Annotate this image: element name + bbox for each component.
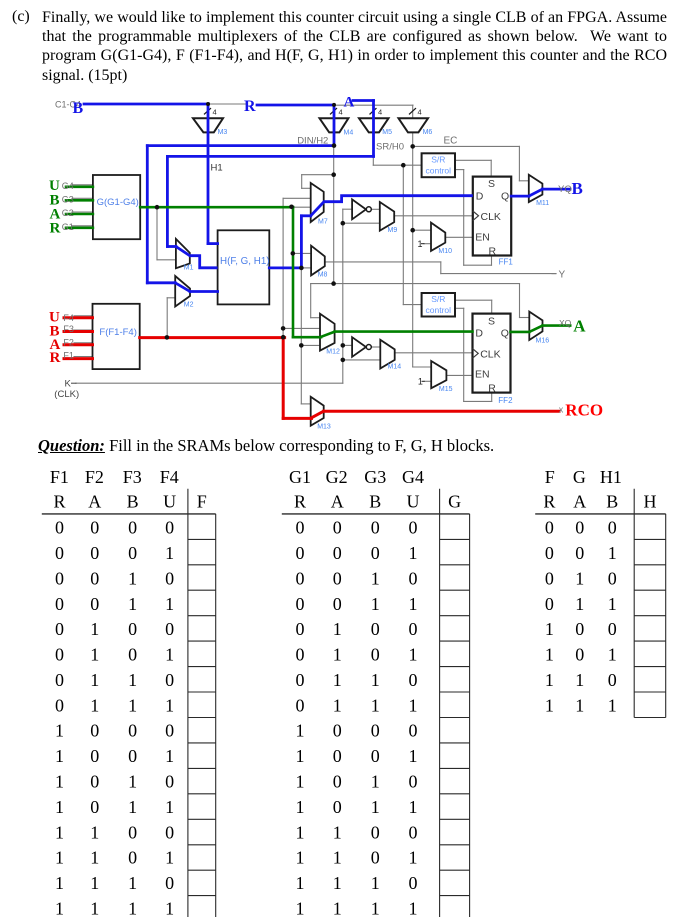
svg-text:M14: M14 xyxy=(388,364,402,371)
svg-text:1: 1 xyxy=(296,772,305,792)
svg-text:R: R xyxy=(488,382,496,394)
svg-text:0: 0 xyxy=(409,873,418,893)
svg-text:0: 0 xyxy=(55,543,64,563)
svg-text:1: 1 xyxy=(608,645,617,665)
svg-text:YQ: YQ xyxy=(558,184,572,195)
svg-text:M12: M12 xyxy=(326,349,340,356)
svg-text:0: 0 xyxy=(90,721,99,741)
wire M11 output YQ blue xyxy=(542,188,570,191)
svg-text:0: 0 xyxy=(371,822,380,842)
svg-text:H(F, G, H1): H(F, G, H1) xyxy=(220,256,270,267)
S/R control box 2 xyxy=(422,293,455,317)
wire SR/H0 gray drop to S/R control boxes xyxy=(372,156,374,165)
svg-text:0: 0 xyxy=(128,848,137,868)
svg-text:0: 0 xyxy=(128,721,137,741)
svg-text:EN: EN xyxy=(475,369,490,381)
wire S/R control 1 to FF1 R pin xyxy=(455,169,464,171)
svg-text:0: 0 xyxy=(296,543,305,563)
svg-text:A: A xyxy=(344,95,355,111)
svg-text:4: 4 xyxy=(418,108,422,117)
svg-text:F2: F2 xyxy=(63,337,74,347)
svg-text:1: 1 xyxy=(128,898,137,917)
svg-text:1: 1 xyxy=(296,898,305,917)
wire EC branch to M10 upper input xyxy=(413,229,431,231)
svg-text:1: 1 xyxy=(371,772,380,792)
svg-text:F3: F3 xyxy=(123,467,142,487)
svg-text:EC: EC xyxy=(444,136,458,147)
svg-text:control: control xyxy=(426,305,452,315)
svg-text:M11: M11 xyxy=(536,200,549,207)
wire M7 output to FF1 D blue xyxy=(324,196,473,202)
wire M1 output to H block blue xyxy=(190,256,218,268)
svg-text:CLK: CLK xyxy=(480,348,500,360)
svg-text:1: 1 xyxy=(371,898,380,917)
wire DIN loop to M7 upper input xyxy=(302,174,334,176)
svg-text:D: D xyxy=(476,190,484,202)
svg-text:R: R xyxy=(50,350,61,366)
node G to M8 junction xyxy=(291,251,296,256)
svg-text:1: 1 xyxy=(575,569,584,589)
node F output corner junction xyxy=(281,335,286,340)
svg-text:K: K xyxy=(65,379,72,390)
wire EC branch to M11 xyxy=(413,145,520,147)
svg-text:Q: Q xyxy=(501,327,509,339)
svg-text:1: 1 xyxy=(409,898,418,917)
svg-text:1: 1 xyxy=(55,848,64,868)
svg-text:0: 0 xyxy=(409,772,418,792)
svg-text:B: B xyxy=(369,492,381,512)
svg-text:0: 0 xyxy=(608,619,617,639)
svg-text:1: 1 xyxy=(409,797,418,817)
svg-text:1: 1 xyxy=(545,645,554,665)
svg-text:G1: G1 xyxy=(289,467,311,487)
inverter 2 (clock) xyxy=(352,337,366,357)
node DIN/H2 junction xyxy=(332,143,337,148)
mux M9 xyxy=(380,202,394,231)
svg-text:0: 0 xyxy=(296,619,305,639)
svg-text:M2: M2 xyxy=(184,302,194,309)
svg-text:0: 0 xyxy=(55,518,64,538)
flip-flop FF2 xyxy=(473,314,511,393)
wire DIN vertical below M4 junction xyxy=(333,146,335,284)
svg-text:0: 0 xyxy=(90,543,99,563)
svg-text:1: 1 xyxy=(296,746,305,766)
svg-text:1: 1 xyxy=(296,797,305,817)
svg-text:1: 1 xyxy=(165,695,174,715)
wire clock to M9 lower input xyxy=(343,222,380,224)
svg-text:F3: F3 xyxy=(63,324,74,334)
svg-text:G4: G4 xyxy=(402,467,424,487)
mux M11 selected path blue xyxy=(529,189,543,196)
svg-text:1: 1 xyxy=(333,695,342,715)
svg-text:1: 1 xyxy=(296,721,305,741)
svg-text:1: 1 xyxy=(128,670,137,690)
svg-text:R: R xyxy=(50,221,61,237)
svg-text:1: 1 xyxy=(371,873,380,893)
svg-text:0: 0 xyxy=(55,645,64,665)
svg-text:1: 1 xyxy=(90,898,99,917)
svg-text:0: 0 xyxy=(90,518,99,538)
node H to M12 junction xyxy=(299,343,304,348)
svg-text:1: 1 xyxy=(55,746,64,766)
svg-text:1: 1 xyxy=(409,746,418,766)
svg-text:EN: EN xyxy=(475,232,490,244)
node M4 tap junction xyxy=(332,103,336,107)
mux M7 selected path blue xyxy=(311,202,324,216)
wire FF2 Q to M16 green xyxy=(511,331,530,334)
wire clock to inverter 2 xyxy=(343,344,352,346)
svg-text:B: B xyxy=(572,179,583,198)
svg-text:M4: M4 xyxy=(344,130,354,137)
svg-text:0: 0 xyxy=(90,569,99,589)
svg-text:1: 1 xyxy=(409,645,418,665)
svg-text:0: 0 xyxy=(90,797,99,817)
mux M3 xyxy=(193,118,223,132)
svg-text:0: 0 xyxy=(575,543,584,563)
svg-text:H1: H1 xyxy=(211,163,223,174)
svg-text:0: 0 xyxy=(409,721,418,741)
svg-text:1: 1 xyxy=(608,695,617,715)
svg-text:G3: G3 xyxy=(364,467,386,487)
svg-text:M8: M8 xyxy=(318,272,328,279)
wire F-output riser to M7 and M12 xyxy=(282,198,284,337)
node DIN lower junction xyxy=(331,281,336,286)
mux M6 xyxy=(399,118,429,132)
svg-text:control: control xyxy=(426,166,452,176)
svg-text:0: 0 xyxy=(409,670,418,690)
svg-text:F: F xyxy=(197,492,207,512)
svg-text:1: 1 xyxy=(165,848,174,868)
wire M15 output to FF2 EN xyxy=(446,374,472,376)
svg-text:0: 0 xyxy=(165,822,174,842)
svg-text:1: 1 xyxy=(165,594,174,614)
wire H output blue xyxy=(269,266,301,269)
svg-text:0: 0 xyxy=(296,518,305,538)
wire G drop to M12 green xyxy=(292,207,295,337)
svg-text:1: 1 xyxy=(371,695,380,715)
svg-text:0: 0 xyxy=(545,569,554,589)
svg-text:1: 1 xyxy=(296,848,305,868)
node EC junction xyxy=(410,144,415,149)
svg-text:A: A xyxy=(331,492,344,512)
svg-text:1: 1 xyxy=(333,645,342,665)
svg-text:0: 0 xyxy=(409,822,418,842)
svg-text:1: 1 xyxy=(55,721,64,741)
wire G block input G4-G1 green xyxy=(66,186,93,189)
svg-text:0: 0 xyxy=(371,721,380,741)
svg-text:1: 1 xyxy=(55,822,64,842)
svg-text:1: 1 xyxy=(575,594,584,614)
svg-text:DIN/H2: DIN/H2 xyxy=(297,136,328,147)
wire M12 output to FF2 D green xyxy=(335,330,473,333)
svg-text:F1: F1 xyxy=(50,467,69,487)
wire M13 output RCO red xyxy=(324,410,559,413)
mux M16 xyxy=(529,312,542,340)
svg-text:x: x xyxy=(559,405,564,415)
svg-text:(CLK): (CLK) xyxy=(54,389,79,400)
wire DIN/H2 drop to M2 blue xyxy=(146,146,149,283)
svg-text:0: 0 xyxy=(333,594,342,614)
svg-text:0: 0 xyxy=(55,594,64,614)
wire clock riser xyxy=(342,209,344,383)
svg-text:FF1: FF1 xyxy=(499,258,514,267)
node F to M12 junction xyxy=(281,326,286,331)
svg-text:0: 0 xyxy=(55,569,64,589)
svg-text:0: 0 xyxy=(165,619,174,639)
wire F block input stubs gray xyxy=(74,315,93,317)
svg-text:R: R xyxy=(489,245,497,257)
svg-text:B: B xyxy=(73,100,84,117)
node DIN upper loop junction xyxy=(331,172,336,177)
svg-text:1: 1 xyxy=(165,746,174,766)
wire gray segment M4-to-M6 top feed xyxy=(334,104,413,106)
svg-text:4: 4 xyxy=(213,108,217,117)
mux M12 selected path green xyxy=(320,332,335,338)
svg-text:0: 0 xyxy=(409,619,418,639)
wire M3 H1 vertical blue xyxy=(207,104,210,244)
svg-text:1: 1 xyxy=(128,797,137,817)
svg-text:M9: M9 xyxy=(388,227,398,234)
svg-text:Y: Y xyxy=(559,270,566,281)
svg-text:1: 1 xyxy=(90,670,99,690)
wire M6 input/output vertical and EC down-feed xyxy=(412,105,414,367)
svg-text:B: B xyxy=(127,492,139,512)
svg-text:G2: G2 xyxy=(326,467,348,487)
wire H branch to M8 lower input xyxy=(301,267,311,269)
wire S/R control 1 to FF1 S pin xyxy=(455,159,491,161)
wire G block output green xyxy=(140,206,293,209)
svg-text:XQ: XQ xyxy=(559,318,572,328)
svg-text:F4: F4 xyxy=(160,467,179,487)
svg-text:0: 0 xyxy=(333,569,342,589)
svg-text:1: 1 xyxy=(128,695,137,715)
svg-text:1: 1 xyxy=(55,797,64,817)
svg-text:1: 1 xyxy=(128,772,137,792)
svg-text:1: 1 xyxy=(90,645,99,665)
inverter 1 (clock) xyxy=(352,199,366,219)
svg-text:S: S xyxy=(488,178,495,190)
wire F block output red xyxy=(140,336,285,339)
svg-text:S: S xyxy=(488,315,495,327)
node H output junction xyxy=(299,266,304,271)
svg-text:0: 0 xyxy=(333,797,342,817)
svg-text:0: 0 xyxy=(575,645,584,665)
svg-text:G3: G3 xyxy=(62,195,74,205)
wire inverter1 output to M9 upper input xyxy=(371,208,380,210)
mux M7 xyxy=(311,183,324,222)
svg-text:M7: M7 xyxy=(318,219,328,226)
wire K clock line xyxy=(76,382,343,384)
wire EC branch to M15 upper input xyxy=(413,366,432,368)
svg-text:1: 1 xyxy=(545,670,554,690)
svg-text:M15: M15 xyxy=(439,386,453,393)
wire C1-C4 bus gray segment M3-to-R xyxy=(207,103,247,105)
svg-text:1: 1 xyxy=(575,670,584,690)
svg-text:1: 1 xyxy=(165,898,174,917)
mux M5 xyxy=(359,118,389,132)
svg-text:0: 0 xyxy=(333,721,342,741)
svg-text:0: 0 xyxy=(545,543,554,563)
block H(F,G,H1) xyxy=(218,230,270,304)
svg-text:0: 0 xyxy=(371,645,380,665)
mux M13 xyxy=(311,397,324,426)
svg-text:B: B xyxy=(606,492,618,512)
node clock to M14 junction xyxy=(341,358,346,363)
svg-text:0: 0 xyxy=(128,518,137,538)
svg-text:0: 0 xyxy=(371,518,380,538)
svg-text:0: 0 xyxy=(165,569,174,589)
svg-text:0: 0 xyxy=(296,594,305,614)
svg-text:M5: M5 xyxy=(382,129,392,136)
svg-text:0: 0 xyxy=(333,746,342,766)
svg-text:1: 1 xyxy=(409,695,418,715)
svg-text:0: 0 xyxy=(165,670,174,690)
svg-text:S/R: S/R xyxy=(431,155,445,165)
wire A to M5 blue xyxy=(353,99,374,102)
svg-text:G2: G2 xyxy=(62,208,74,218)
svg-text:M16: M16 xyxy=(536,338,550,345)
node G output junction xyxy=(155,205,160,210)
svg-text:1: 1 xyxy=(545,695,554,715)
svg-text:0: 0 xyxy=(55,695,64,715)
node G riser junction xyxy=(289,205,294,210)
wire S/R control 2 to FF2 S pin xyxy=(455,299,492,301)
svg-text:0: 0 xyxy=(371,848,380,868)
svg-text:0: 0 xyxy=(165,518,174,538)
mux M2 xyxy=(175,276,190,307)
bus slash marks 4-bit xyxy=(205,109,211,115)
svg-text:D: D xyxy=(475,327,483,339)
svg-text:1: 1 xyxy=(333,898,342,917)
wire M9 output to FF1 CLK xyxy=(394,215,473,217)
svg-text:1: 1 xyxy=(371,670,380,690)
svg-text:0: 0 xyxy=(90,594,99,614)
svg-text:1: 1 xyxy=(333,873,342,893)
svg-text:R: R xyxy=(543,492,555,512)
svg-text:0: 0 xyxy=(90,772,99,792)
mux M1 xyxy=(176,239,190,268)
node SR/H0 control junction xyxy=(401,163,406,168)
flip-flop FF1 xyxy=(473,177,511,256)
svg-text:1: 1 xyxy=(90,822,99,842)
svg-text:0: 0 xyxy=(608,518,617,538)
svg-text:1: 1 xyxy=(90,873,99,893)
svg-text:0: 0 xyxy=(371,543,380,563)
svg-text:A: A xyxy=(88,492,101,512)
svg-text:CLK: CLK xyxy=(481,211,501,223)
svg-text:A: A xyxy=(573,317,586,336)
svg-text:0: 0 xyxy=(296,695,305,715)
wire M4 output DIN/H2 blue xyxy=(333,105,336,146)
svg-text:1: 1 xyxy=(165,543,174,563)
svg-text:0: 0 xyxy=(90,746,99,766)
node F to M2 junction xyxy=(165,335,170,340)
svg-text:0: 0 xyxy=(333,543,342,563)
svg-text:1: 1 xyxy=(333,670,342,690)
wire F drop to M13 red xyxy=(282,338,285,419)
svg-text:0: 0 xyxy=(371,746,380,766)
svg-text:0: 0 xyxy=(409,569,418,589)
wire B input bus blue xyxy=(84,103,209,106)
svg-text:1: 1 xyxy=(165,797,174,817)
svg-text:0: 0 xyxy=(333,518,342,538)
svg-text:U: U xyxy=(163,492,176,512)
mux M16 selected path green xyxy=(529,326,542,332)
svg-text:H1: H1 xyxy=(600,467,622,487)
svg-text:0: 0 xyxy=(128,746,137,766)
svg-text:M10: M10 xyxy=(438,248,452,255)
svg-text:0: 0 xyxy=(165,721,174,741)
wire R to M4 blue xyxy=(257,104,334,107)
wire M5 output SR/H0 blue xyxy=(167,155,373,158)
block G(G1-G4) xyxy=(93,175,140,239)
node clock to M9 junction xyxy=(341,221,346,226)
svg-text:G4: G4 xyxy=(62,181,74,191)
wire S/R control 2 to FF2 R pin xyxy=(455,307,464,309)
svg-text:1: 1 xyxy=(575,695,584,715)
S/R control box 1 xyxy=(422,153,455,177)
svg-text:1: 1 xyxy=(409,848,418,868)
svg-text:0: 0 xyxy=(128,619,137,639)
mux M10 xyxy=(431,223,445,251)
svg-text:0: 0 xyxy=(545,518,554,538)
svg-text:0: 0 xyxy=(409,518,418,538)
svg-text:1: 1 xyxy=(55,772,64,792)
svg-text:0: 0 xyxy=(575,518,584,538)
svg-text:M13: M13 xyxy=(317,424,331,431)
svg-text:H: H xyxy=(643,492,656,512)
wire F block input F4-F1 red xyxy=(64,316,93,319)
svg-text:M6: M6 xyxy=(423,129,433,136)
svg-text:F(F1-F4): F(F1-F4) xyxy=(99,327,136,338)
mux M13 selected path red xyxy=(311,411,324,418)
svg-text:U: U xyxy=(407,492,420,512)
svg-text:0: 0 xyxy=(545,594,554,614)
svg-text:1: 1 xyxy=(608,543,617,563)
svg-text:0: 0 xyxy=(128,645,137,665)
svg-text:0: 0 xyxy=(128,822,137,842)
svg-text:1: 1 xyxy=(333,822,342,842)
svg-text:0: 0 xyxy=(333,772,342,792)
wire DIN branch to M16 upper input xyxy=(334,283,520,285)
mux M15 xyxy=(431,361,446,388)
wire G stub to M1 lower input xyxy=(156,207,158,260)
svg-text:1: 1 xyxy=(409,594,418,614)
svg-text:F2: F2 xyxy=(85,467,104,487)
wire G branch to M8 upper input xyxy=(293,252,311,254)
svg-text:G(G1-G4): G(G1-G4) xyxy=(97,197,139,208)
svg-text:M1: M1 xyxy=(184,265,194,272)
svg-text:0: 0 xyxy=(165,772,174,792)
svg-text:1: 1 xyxy=(55,898,64,917)
svg-text:4: 4 xyxy=(339,108,343,117)
svg-text:1: 1 xyxy=(128,873,137,893)
svg-text:F1: F1 xyxy=(63,351,74,361)
svg-text:G: G xyxy=(448,492,461,512)
svg-text:1: 1 xyxy=(371,594,380,614)
mux M8 xyxy=(311,246,325,276)
svg-text:1: 1 xyxy=(296,873,305,893)
svg-text:0: 0 xyxy=(55,670,64,690)
svg-text:0: 0 xyxy=(55,619,64,639)
svg-text:1: 1 xyxy=(90,619,99,639)
node EC to M10 junction xyxy=(410,228,415,233)
svg-text:4: 4 xyxy=(378,108,382,117)
wire M15 constant-1 stub xyxy=(424,380,431,382)
wire G block input stubs gray xyxy=(72,184,93,186)
mux M14 xyxy=(380,340,394,369)
mux M2 selected path blue xyxy=(175,283,190,292)
